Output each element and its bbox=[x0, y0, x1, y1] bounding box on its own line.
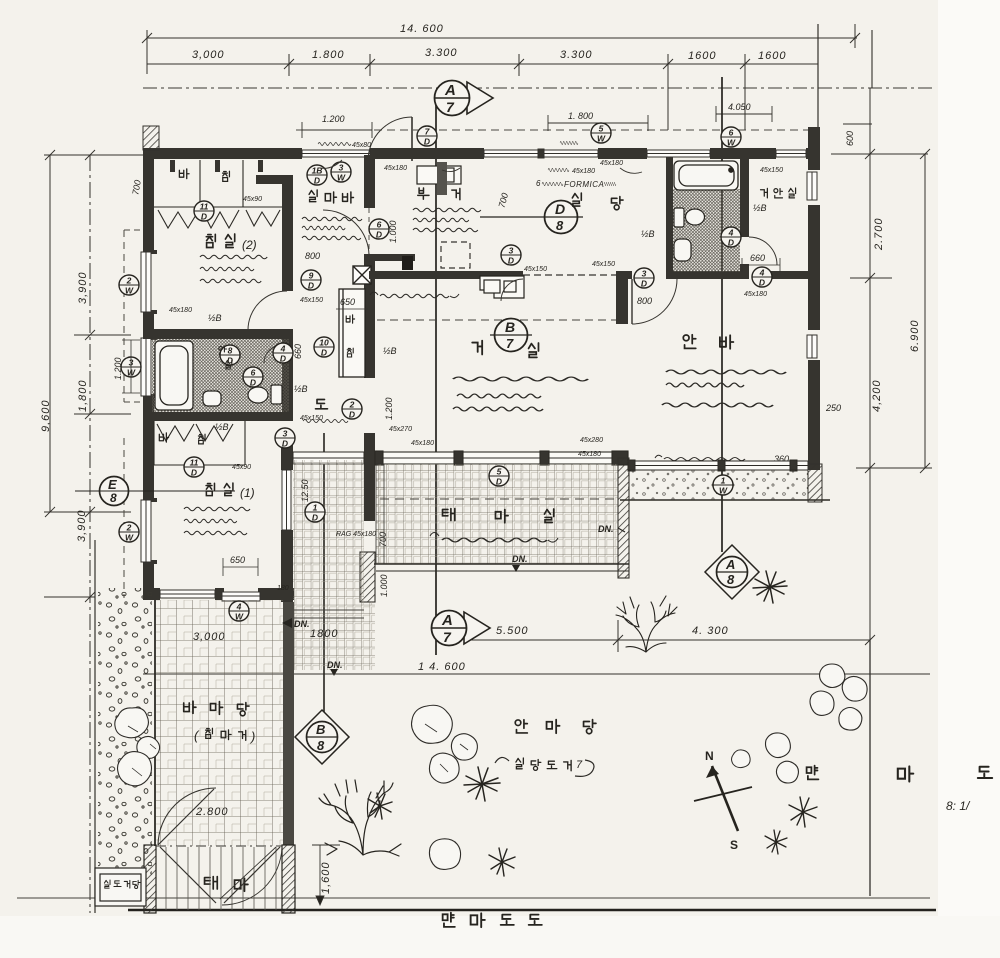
gate label 대문 bbox=[205, 877, 248, 892]
living bottom window band bbox=[375, 451, 628, 465]
star shrub court left bbox=[464, 767, 500, 801]
svg-text:(1): (1) bbox=[240, 486, 255, 500]
anbang bottom window band bbox=[628, 460, 808, 471]
gate post left bbox=[144, 845, 156, 913]
wall bath1 top horizontal bbox=[143, 329, 293, 339]
svg-text:650: 650 bbox=[340, 297, 355, 307]
rocks court left cluster bbox=[412, 705, 478, 783]
eave dashed line y=130 bbox=[296, 129, 820, 131]
trash label 쓰레기통 bbox=[101, 882, 137, 890]
opening mark 11/D bbox=[194, 201, 214, 222]
bath1 sink bbox=[203, 391, 221, 406]
svg-text:½B: ½B bbox=[383, 346, 397, 356]
svg-text:1B: 1B bbox=[312, 166, 323, 176]
title 평 면 도 bbox=[807, 766, 993, 782]
svg-text:45x180: 45x180 bbox=[169, 307, 192, 314]
svg-text:B: B bbox=[505, 319, 515, 335]
svg-text:4: 4 bbox=[759, 268, 765, 278]
section symbol B-8 diamond bbox=[295, 710, 349, 764]
gate post right bbox=[282, 845, 295, 913]
star shrub court bottom bbox=[489, 848, 515, 876]
svg-text:4: 4 bbox=[280, 344, 286, 354]
dim 4.050 bbox=[716, 106, 772, 122]
pass-through note 머리싯판물받기 bbox=[370, 292, 378, 295]
top-left corner post bbox=[143, 126, 159, 150]
closet label 반침 bedroom2 bbox=[179, 169, 229, 181]
shoe cabinet entrance bbox=[417, 166, 461, 184]
svg-text:7: 7 bbox=[446, 99, 455, 115]
rocks east cluster lower bbox=[766, 733, 799, 783]
living / anbang divider vertical bbox=[616, 273, 628, 324]
opening mark 9/D bbox=[301, 270, 321, 291]
corridor left wall bbox=[281, 438, 293, 470]
door arc bath1 bbox=[264, 345, 282, 363]
terrace right hatched wall bbox=[618, 458, 629, 578]
bedroom1 closet zigzag bbox=[157, 424, 233, 441]
terrace left step block bbox=[376, 464, 384, 564]
svg-text:D: D bbox=[508, 256, 514, 266]
left wall window sills bbox=[151, 250, 157, 564]
section line A-8 vertical bbox=[721, 77, 723, 552]
top exterior wall segments bbox=[143, 148, 820, 159]
living dashed ceiling line bbox=[377, 319, 616, 321]
svg-text:DN.: DN. bbox=[294, 619, 310, 629]
svg-text:W: W bbox=[235, 612, 244, 622]
svg-text:DN.: DN. bbox=[598, 524, 614, 534]
bedroom2 closet hanger marks bbox=[170, 160, 263, 172]
star shrub east lower 1 bbox=[789, 797, 817, 827]
bath1 floor crosshatch bbox=[152, 339, 289, 412]
opening mark 2/W bbox=[119, 275, 139, 296]
bath2 tub bbox=[674, 161, 738, 190]
site boundary bottom double line bbox=[17, 897, 930, 899]
svg-text:3,000: 3,000 bbox=[193, 631, 226, 643]
svg-text:3: 3 bbox=[642, 269, 647, 279]
corridor right hatched block bbox=[360, 552, 375, 602]
svg-text:W: W bbox=[727, 138, 736, 148]
svg-text:1: 1 bbox=[313, 503, 318, 513]
corridor steps bbox=[294, 610, 364, 618]
opening mark 4/W bbox=[229, 601, 249, 622]
terrace dashed eave line bbox=[380, 498, 616, 500]
svg-text:A: A bbox=[444, 82, 456, 99]
door arc living-kitchen bbox=[501, 279, 523, 301]
yard left edge line bbox=[154, 600, 156, 846]
anbang notes bbox=[666, 370, 786, 374]
svg-text:½B: ½B bbox=[294, 384, 308, 394]
svg-text:3,900: 3,900 bbox=[77, 271, 89, 304]
gate plank lines bbox=[166, 847, 276, 910]
svg-text:8: 8 bbox=[110, 491, 117, 505]
detail symbol E-8 left bbox=[75, 477, 235, 506]
room label living 거실 bbox=[472, 341, 538, 358]
bedroom2 closet zigzag bbox=[158, 210, 280, 228]
bare tree bottom left bbox=[319, 780, 401, 856]
opening mark 3/D bbox=[634, 268, 654, 289]
opening mark 3/W bbox=[331, 162, 351, 183]
svg-text:N: N bbox=[705, 749, 714, 763]
yard / court fence wall bbox=[283, 602, 294, 845]
section line B-8 vertical bbox=[323, 433, 325, 722]
kitchen notes bbox=[413, 208, 481, 212]
wall bedroom2-top jog bbox=[256, 175, 293, 184]
svg-text:650: 650 bbox=[230, 555, 245, 565]
eave note top 처마 45x180 bbox=[548, 168, 569, 171]
svg-text:W: W bbox=[337, 173, 346, 183]
svg-text:3: 3 bbox=[509, 246, 514, 256]
refrigerator block bbox=[437, 162, 447, 195]
top wall window maid room bbox=[302, 150, 370, 157]
bedroom1 bottom window sliding bbox=[160, 590, 215, 598]
right exterior wall segments bbox=[808, 127, 820, 470]
rocks east cluster upper bbox=[810, 664, 867, 730]
svg-text:4,200: 4,200 bbox=[871, 379, 883, 412]
maid room door gap dashes bbox=[368, 208, 370, 256]
svg-text:45x150: 45x150 bbox=[300, 415, 323, 422]
svg-text:2.700: 2.700 bbox=[873, 217, 885, 251]
svg-text:RAG 45x180: RAG 45x180 bbox=[336, 531, 376, 538]
leader to maid window bbox=[276, 152, 300, 158]
hall bottom window band bbox=[293, 452, 364, 464]
dim 1.200 above maid room bbox=[302, 122, 372, 138]
kitchen sink counter bbox=[480, 276, 524, 298]
svg-text:1600: 1600 bbox=[758, 50, 786, 62]
svg-text:5.500: 5.500 bbox=[496, 625, 529, 637]
opening mark 5/D bbox=[489, 466, 509, 487]
room label hall 홀 bbox=[316, 400, 328, 409]
svg-text:D: D bbox=[728, 238, 734, 248]
front yard grid bbox=[156, 600, 283, 846]
corridor left wall window bbox=[282, 470, 291, 530]
svg-text:1.200: 1.200 bbox=[384, 397, 394, 420]
door arc bedroom2 to hall bbox=[248, 291, 287, 330]
section symbol A-7 top bbox=[435, 81, 494, 116]
opening mark 2/D bbox=[342, 399, 362, 420]
svg-text:7: 7 bbox=[506, 336, 514, 351]
opening mark 3/W bbox=[121, 357, 141, 378]
top wall window gyeonguisil bbox=[776, 150, 806, 157]
svg-text:9,600: 9,600 bbox=[40, 399, 52, 432]
svg-text:D: D bbox=[349, 410, 355, 420]
wall bath1 / hall vertical bbox=[282, 329, 293, 420]
svg-text:12.50: 12.50 bbox=[300, 479, 310, 502]
svg-text:11: 11 bbox=[190, 458, 199, 468]
svg-text:8: 8 bbox=[228, 346, 233, 356]
bedroom1 notes bbox=[184, 507, 250, 511]
svg-text:3,000: 3,000 bbox=[192, 49, 225, 61]
svg-text:45x80: 45x80 bbox=[352, 142, 371, 149]
room label anbang 안방 bbox=[683, 335, 733, 349]
rock small near compass bbox=[732, 750, 751, 768]
svg-text:11: 11 bbox=[200, 202, 209, 212]
wall bath1 bottom horizontal bbox=[143, 412, 293, 421]
opening mark 7/D bbox=[417, 126, 437, 147]
svg-text:3: 3 bbox=[283, 429, 288, 439]
svg-text:D: D bbox=[321, 348, 327, 358]
svg-text:A: A bbox=[725, 557, 735, 572]
star shrub near A8 bbox=[753, 571, 787, 603]
svg-text:DN.: DN. bbox=[512, 554, 528, 564]
svg-text:DN.: DN. bbox=[327, 660, 343, 670]
svg-text:660: 660 bbox=[750, 253, 765, 263]
right dim lines 600/2.700/4.200 and 6.900 bbox=[869, 88, 871, 896]
bath1 toilet bbox=[248, 385, 282, 404]
left dim line 9.600 bbox=[49, 155, 51, 512]
svg-text:45x180: 45x180 bbox=[578, 451, 601, 458]
detail symbol D-8 dining bbox=[480, 201, 583, 234]
svg-text:3.300: 3.300 bbox=[560, 49, 593, 61]
bedroom1 bottom wall segments bbox=[143, 588, 294, 600]
svg-text:10: 10 bbox=[319, 338, 329, 348]
opening mark 5/W bbox=[591, 123, 611, 144]
svg-text:1.000: 1.000 bbox=[388, 220, 398, 243]
terrace bottom edge bbox=[374, 564, 629, 571]
svg-text:W: W bbox=[597, 134, 606, 144]
room label dining 식당 bbox=[572, 193, 623, 210]
front yard label 앞마당 bbox=[184, 701, 249, 716]
corridor right wall bbox=[364, 433, 375, 521]
opening mark 4/D bbox=[752, 267, 772, 288]
svg-text:S: S bbox=[730, 838, 738, 852]
room label maid 식모방 bbox=[309, 190, 353, 203]
section line A-A vertical bbox=[435, 92, 437, 655]
svg-text:45x150: 45x150 bbox=[300, 297, 323, 304]
svg-text:45x90: 45x90 bbox=[232, 464, 251, 471]
hall closet bbox=[339, 289, 365, 377]
svg-text:1.800: 1.800 bbox=[312, 49, 345, 61]
closet label 반침 bedroom1 bbox=[159, 433, 205, 444]
dim 1.800 kitchen window bbox=[548, 115, 648, 131]
svg-text:45x150: 45x150 bbox=[592, 261, 615, 268]
svg-text:45x270: 45x270 bbox=[389, 426, 412, 433]
svg-text:D: D bbox=[314, 176, 320, 186]
svg-text:1. 800: 1. 800 bbox=[568, 111, 593, 121]
left wall window bedroom2 lower bbox=[141, 338, 151, 396]
svg-text:1: 1 bbox=[721, 476, 726, 486]
bath1 tub bbox=[155, 341, 193, 410]
pass-through counter dashes bbox=[523, 274, 616, 276]
DN arrows bbox=[294, 524, 614, 670]
room label gyeonguisil 경의실 bbox=[761, 188, 796, 198]
svg-text:800: 800 bbox=[305, 251, 320, 261]
opening mark 4/D bbox=[721, 227, 741, 248]
veranda band below anbang bbox=[620, 464, 830, 502]
bedroom1 closet bbox=[154, 421, 245, 465]
svg-text:3.300: 3.300 bbox=[425, 47, 458, 59]
gate leaf swing left bbox=[158, 788, 216, 845]
court label 안마당 bbox=[515, 720, 596, 734]
svg-text:B: B bbox=[316, 722, 325, 737]
room label kitchen 부엌 bbox=[418, 188, 460, 200]
bath2 floor crosshatch bbox=[673, 189, 740, 272]
opening mark 6/D bbox=[243, 367, 263, 388]
top wall windows kitchen bbox=[484, 149, 598, 158]
door arc maid room bbox=[323, 210, 369, 256]
maid notes bbox=[302, 217, 362, 221]
court note 잔디깔기 with swoosh bbox=[495, 757, 509, 763]
svg-text:2.800: 2.800 bbox=[195, 806, 229, 818]
svg-text:2: 2 bbox=[126, 276, 132, 286]
terrace label 테라스 bbox=[443, 509, 554, 523]
dashed module line left upper bbox=[123, 230, 125, 402]
bedroom1 label 침실(1) bbox=[206, 483, 255, 500]
svg-text:600: 600 bbox=[845, 131, 855, 146]
opening mark 3/D bbox=[275, 428, 295, 449]
opening mark 6/W bbox=[721, 127, 741, 148]
svg-text:6: 6 bbox=[377, 220, 382, 230]
svg-text:6.900: 6.900 bbox=[909, 319, 921, 352]
svg-text:45x280: 45x280 bbox=[580, 437, 603, 444]
svg-text:D: D bbox=[555, 201, 565, 217]
svg-text:8: 1/: 8: 1/ bbox=[946, 799, 971, 813]
rock single court bbox=[429, 839, 460, 870]
svg-text:660: 660 bbox=[293, 344, 303, 359]
dimension line top 14.600 bbox=[142, 24, 860, 74]
bath2 toilet bbox=[674, 208, 705, 227]
dashed module line left lower bbox=[123, 438, 125, 598]
leader squiggles for eave notes bbox=[442, 168, 460, 172]
opening mark 8/D bbox=[220, 345, 240, 366]
trash bin box bbox=[95, 868, 146, 906]
compass bbox=[694, 766, 752, 831]
svg-text:W: W bbox=[719, 486, 728, 496]
svg-text:½B: ½B bbox=[215, 422, 229, 432]
svg-text:1600: 1600 bbox=[688, 50, 716, 62]
bottom dim 14.600 bbox=[143, 673, 930, 675]
hall small note bbox=[303, 419, 348, 422]
bath2 right wall upper bbox=[740, 157, 749, 237]
svg-text:45x180: 45x180 bbox=[600, 160, 623, 167]
svg-text:1800: 1800 bbox=[310, 628, 338, 640]
svg-text:D: D bbox=[282, 439, 288, 449]
kitchen dashed worktable bbox=[441, 242, 470, 268]
svg-text:W: W bbox=[127, 368, 136, 378]
svg-text:½B: ½B bbox=[753, 203, 767, 213]
svg-text:6: 6 bbox=[729, 128, 734, 138]
svg-text:D: D bbox=[496, 477, 502, 487]
gate leaf lower left diagonal bbox=[160, 847, 216, 903]
anbang top wall segments bbox=[616, 271, 632, 279]
half-brick labels bbox=[208, 203, 767, 432]
svg-text:D: D bbox=[201, 212, 207, 222]
svg-text:1.000: 1.000 bbox=[379, 574, 389, 597]
wall bedroom2 / hall vertical bbox=[282, 180, 293, 291]
door arc gyeonguisil bbox=[749, 237, 777, 265]
svg-text:1,800: 1,800 bbox=[77, 379, 89, 412]
svg-text:9: 9 bbox=[309, 271, 314, 281]
svg-text:8: 8 bbox=[556, 218, 564, 233]
svg-text:7: 7 bbox=[576, 759, 583, 771]
svg-text:D: D bbox=[191, 468, 197, 478]
star shrub east lower 2 bbox=[765, 830, 787, 854]
svg-text:FORMICA: FORMICA bbox=[564, 180, 604, 189]
X-box column bbox=[353, 266, 371, 284]
hall closet labels vertical 반 침 bbox=[346, 315, 354, 357]
flue dark block bbox=[402, 256, 413, 270]
svg-text:45x180: 45x180 bbox=[572, 168, 595, 175]
star shrub west edge bbox=[368, 793, 392, 819]
opening mark 1/D bbox=[305, 502, 325, 523]
living notes bbox=[453, 377, 588, 381]
svg-text:800: 800 bbox=[637, 296, 652, 306]
anbang sill note 9mm bbox=[655, 455, 662, 458]
wall hall closet right vertical bbox=[364, 256, 375, 378]
svg-text:½B: ½B bbox=[641, 229, 655, 239]
door arc anbang bbox=[632, 279, 677, 324]
top wall window hall-dining bbox=[647, 150, 710, 157]
svg-text:45x150: 45x150 bbox=[524, 266, 547, 273]
right wall window gyeonguisil bbox=[807, 172, 817, 200]
bath2 sink bbox=[674, 239, 691, 261]
svg-text:2: 2 bbox=[126, 523, 132, 533]
bedroom2 closet line bbox=[154, 160, 282, 207]
svg-text:8: 8 bbox=[317, 738, 325, 753]
section symbol A-8 diamond bbox=[705, 545, 759, 599]
gate closing dashed line bbox=[156, 845, 282, 847]
svg-text:3,900: 3,900 bbox=[76, 509, 88, 542]
rocks west strip bbox=[115, 708, 160, 786]
svg-text:D: D bbox=[312, 513, 318, 523]
svg-text:700: 700 bbox=[378, 532, 388, 547]
west site boundary line bbox=[94, 540, 96, 913]
room label bedroom2 침실(2) bbox=[206, 234, 256, 252]
svg-text:1 4. 600: 1 4. 600 bbox=[418, 661, 466, 673]
opening mark 1/W bbox=[713, 475, 733, 496]
east site boundary lower bbox=[869, 640, 871, 896]
svg-text:2: 2 bbox=[349, 400, 355, 410]
bath2 right wall lower bbox=[740, 264, 749, 275]
terrace note bbox=[430, 533, 439, 537]
svg-text:D: D bbox=[424, 137, 430, 147]
svg-text:45x180: 45x180 bbox=[744, 291, 767, 298]
yard sub label (차고겸) bbox=[194, 728, 255, 744]
svg-text:45x150: 45x150 bbox=[760, 167, 783, 174]
bare tree court upper bbox=[616, 596, 677, 652]
svg-text:1.200: 1.200 bbox=[113, 357, 123, 380]
svg-text:½B: ½B bbox=[208, 313, 222, 323]
svg-text:(2): (2) bbox=[242, 238, 257, 252]
svg-text:45x180: 45x180 bbox=[384, 165, 407, 172]
svg-text:D: D bbox=[280, 354, 286, 364]
bedroom1 bottom window 650 bbox=[222, 592, 260, 601]
top verticals x=818 x=872 bbox=[817, 24, 819, 150]
detail symbol B-7 living bbox=[490, 319, 532, 352]
svg-text:D: D bbox=[376, 230, 382, 240]
svg-text:4: 4 bbox=[728, 228, 734, 238]
svg-text:7: 7 bbox=[443, 629, 452, 645]
svg-text:14. 600: 14. 600 bbox=[400, 23, 444, 35]
left wall window bedroom2 upper bbox=[141, 252, 151, 312]
gravel strip along west boundary bbox=[98, 588, 152, 878]
dimension line top segments bbox=[147, 54, 818, 130]
bottom dim 5.500 / 4.300 bbox=[470, 620, 875, 652]
left exterior wall segments bbox=[143, 155, 154, 600]
window/door reference circles bbox=[119, 123, 772, 622]
centre dash-dot line y=88 bbox=[143, 87, 932, 89]
eave note top-left wall bbox=[318, 143, 351, 146]
svg-text:4. 300: 4. 300 bbox=[692, 625, 729, 637]
svg-text:D: D bbox=[308, 281, 314, 291]
svg-text:D: D bbox=[250, 378, 256, 388]
opening mark 3/D bbox=[501, 245, 521, 266]
svg-text:1,600: 1,600 bbox=[320, 861, 332, 894]
wall maid room right vertical bbox=[364, 155, 375, 208]
kitchen top stub wall bbox=[364, 254, 415, 261]
eave note above kitchen window bbox=[560, 142, 578, 145]
svg-text:250: 250 bbox=[825, 403, 841, 413]
svg-text:W: W bbox=[125, 286, 134, 296]
opening mark 11/D bbox=[184, 457, 204, 478]
